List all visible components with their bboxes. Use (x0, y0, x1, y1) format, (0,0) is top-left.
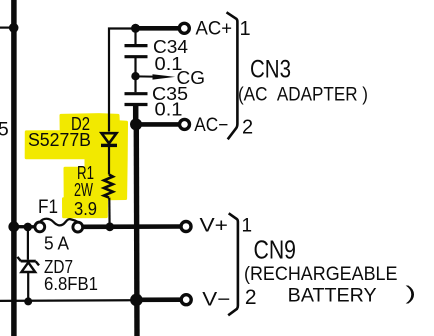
svg-text:CN9: CN9 (254, 235, 297, 265)
svg-text:CN3: CN3 (250, 56, 291, 84)
junction dot V+ at left bus (8, 221, 19, 232)
wire: D2 to R1 lead (108, 147, 110, 175)
terminal V+ pin 1 (181, 222, 191, 232)
wire: zener branch lead (27, 227, 29, 260)
svg-text:6.8FB1: 6.8FB1 (44, 274, 98, 294)
wire: V+ wire left segment (14, 225, 35, 229)
svg-text:S5277B: S5277B (28, 129, 91, 150)
diode D2 (102, 133, 117, 143)
svg-text:0.1: 0.1 (155, 99, 183, 120)
svg-text:2: 2 (245, 286, 257, 309)
svg-text:2W: 2W (74, 179, 93, 200)
svg-text:BATTERY: BATTERY (288, 285, 377, 307)
wire: AC- wire (136, 122, 179, 127)
bracket CN3 (227, 12, 238, 139)
capacitor C34 (125, 44, 148, 47)
svg-text:1: 1 (239, 18, 250, 40)
fuse F1 body circles (35, 222, 45, 232)
svg-text:(RECHARGEABLE: (RECHARGEABLE (244, 264, 398, 285)
wire: AC+ wire (136, 26, 180, 31)
wire: top-left stub (0, 27, 14, 29)
wire: D2 branch riser to AC+ node (109, 29, 135, 132)
wire: R1 to V+ wire lead (108, 198, 110, 227)
bracket CN9 (228, 213, 238, 315)
fuse F1 wave (40, 219, 78, 226)
wire: V- wire (136, 297, 181, 302)
wire: V+ wire right segment (83, 224, 181, 229)
svg-text:): ) (406, 282, 417, 304)
node CG arrow (136, 75, 161, 77)
junction node AC- (130, 118, 142, 130)
svg-text:V−: V− (202, 290, 230, 311)
wire: C34 top lead (134, 28, 136, 44)
junction dot zener tap (24, 223, 33, 232)
resistor R1 (104, 175, 113, 198)
node CG dot (131, 72, 139, 80)
svg-text:5 A: 5 A (44, 233, 70, 254)
junction dot top-left (9, 23, 19, 33)
node CG arrowhead (153, 74, 176, 79)
junction node V- (130, 294, 143, 307)
svg-text:3.9: 3.9 (74, 198, 97, 219)
wire: bottom horizontal line (0, 299, 134, 302)
terminal AC- pin 2 (180, 119, 190, 129)
highlighter mark over D2/S5277B and R1/2W/3.9 (26, 115, 126, 217)
junction dot zener to bottom line (24, 297, 32, 305)
zener diode ZD7 (21, 260, 36, 263)
svg-text:2: 2 (242, 117, 253, 139)
wire: C34 to CG node (134, 58, 136, 92)
terminal AC+ pin 1 (179, 23, 189, 33)
wire: left vertical bus (11, 0, 17, 336)
svg-text:(AC ADAPTER ): (AC ADAPTER ) (238, 85, 368, 106)
wire: C35 thick bottom lead (133, 106, 139, 125)
svg-text:AC+: AC+ (196, 19, 233, 40)
svg-text:AC−: AC− (194, 115, 228, 136)
svg-text:1: 1 (242, 216, 253, 237)
wire: ZD7 bottom lead (27, 272, 29, 301)
junction node AC+ (131, 24, 140, 33)
capacitor C35 (125, 92, 148, 95)
svg-text:F1: F1 (38, 197, 58, 218)
svg-text:V+: V+ (200, 216, 229, 237)
wire: center vertical bus AC- to bottom (134, 124, 140, 336)
terminal V- pin 2 (181, 295, 191, 305)
junction dot D2/R1 branch at V+ (105, 222, 114, 231)
svg-text:5: 5 (0, 119, 9, 141)
